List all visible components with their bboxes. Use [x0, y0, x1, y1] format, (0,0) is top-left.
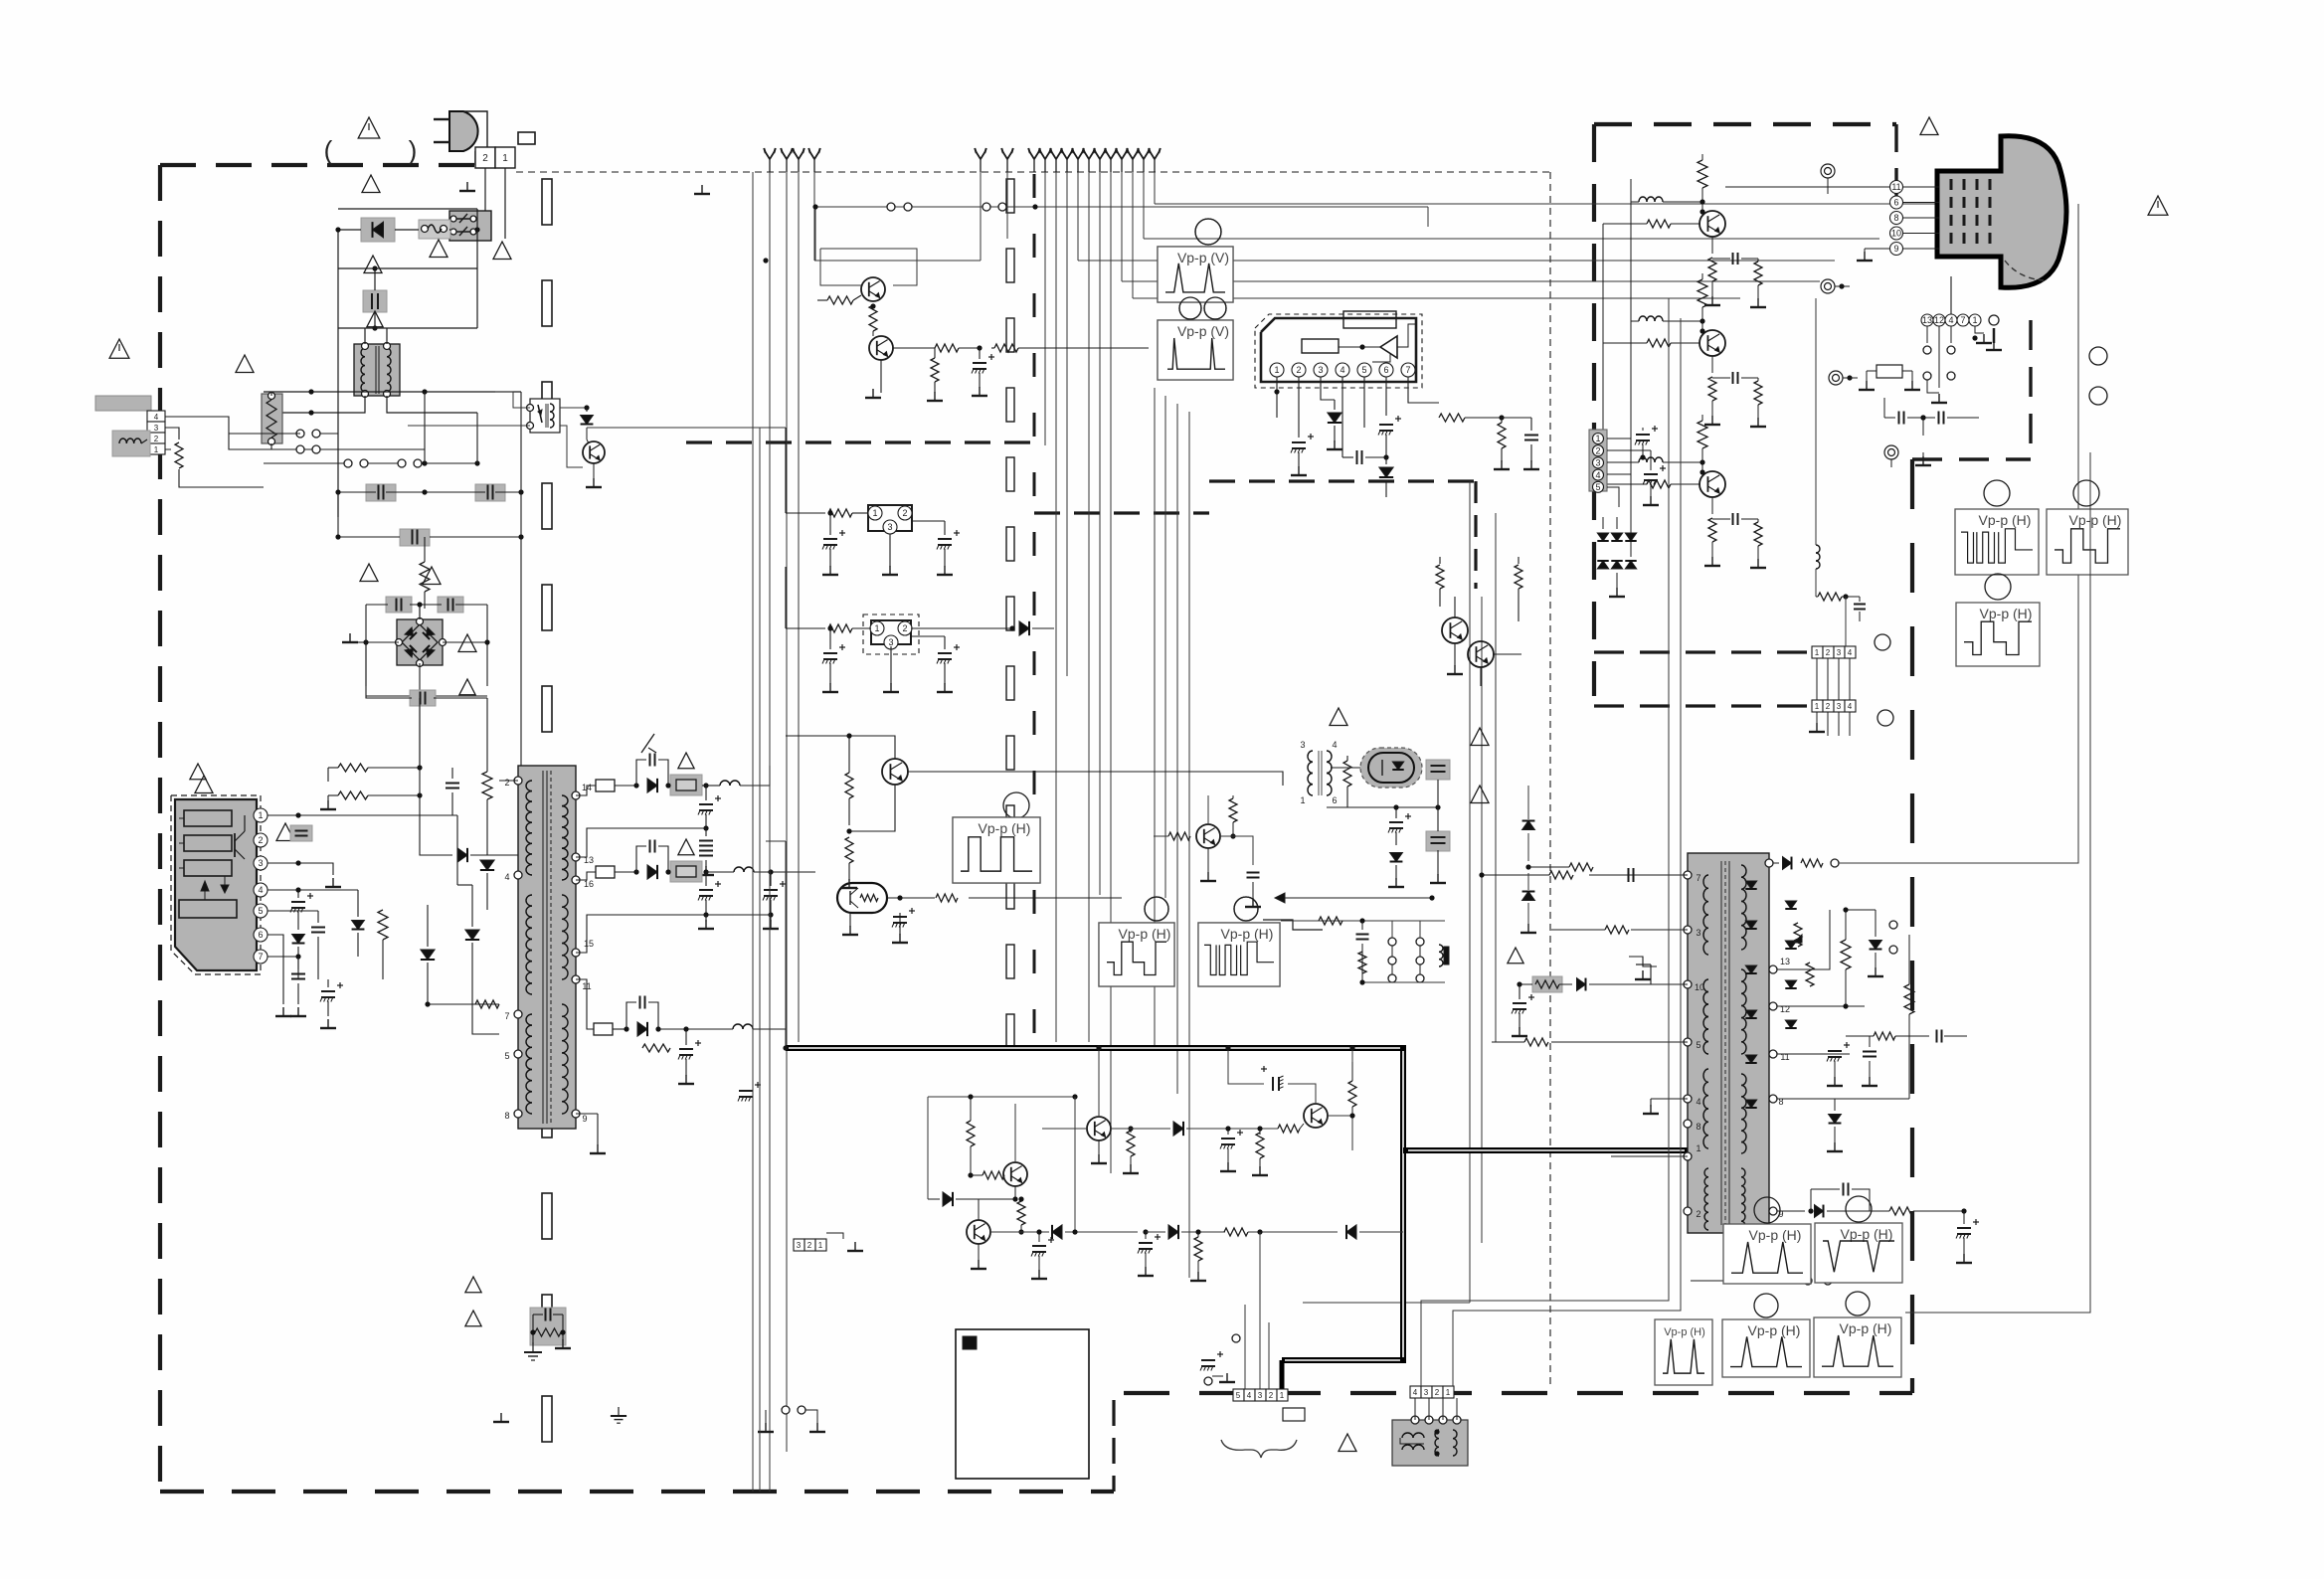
wire v427	[424, 392, 426, 463]
capacitor C26	[1502, 418, 1539, 469]
wire rd2	[1902, 366, 2118, 1233]
wire ic pin4	[268, 889, 298, 891]
gray pad JP1	[665, 775, 702, 795]
wire q5 top	[1349, 1045, 1354, 1062]
wire bus h 820	[457, 814, 518, 816]
wire d6	[428, 905, 499, 1004]
wire c7	[366, 642, 487, 698]
double circle J4	[1884, 445, 1898, 467]
svg-text:2: 2	[902, 508, 907, 518]
ic IC501 body	[1688, 853, 1769, 1233]
capacitor C14	[636, 754, 668, 787]
svg-text:15: 15	[584, 939, 594, 949]
svg-text:5: 5	[504, 1051, 509, 1061]
wire q7 b2	[978, 1199, 980, 1220]
svg-text:Vp-p (V): Vp-p (V)	[1177, 323, 1229, 339]
wire d7	[472, 885, 499, 1034]
wire fl1	[270, 392, 272, 449]
transformer T901 coil right1	[562, 795, 568, 880]
transformer T2 small	[1300, 740, 1337, 805]
wire row2 vert	[1074, 1097, 1076, 1232]
waveform box W1 overlay	[1158, 219, 1233, 302]
waveform box W5	[1198, 897, 1280, 986]
wire sec16	[576, 872, 596, 880]
wire row2	[990, 1231, 1049, 1233]
wire q7 base	[956, 1198, 1015, 1200]
video amp Q10 cap	[1712, 513, 1758, 525]
capacitor C2	[366, 484, 396, 501]
antenna input Z10	[1127, 148, 1139, 172]
wire pc2	[1331, 767, 1482, 769]
transistor Q2	[869, 336, 893, 360]
ground G1	[459, 182, 475, 191]
node q1	[763, 204, 1037, 263]
wire q13 collector	[1207, 795, 1209, 824]
transformer T901 coil left3	[526, 1014, 532, 1114]
coil L6	[1439, 945, 1449, 966]
wire bus drop	[1099, 172, 1101, 895]
wire reg1c	[882, 534, 898, 575]
resistor R14	[845, 733, 853, 825]
diode D4	[292, 935, 305, 980]
wire 770 out	[765, 813, 767, 841]
svg-text:1: 1	[1815, 702, 1820, 711]
wire sec14a	[615, 783, 639, 788]
wire rail 1184	[1176, 404, 1178, 1094]
svg-text:Vp-p (H): Vp-p (H)	[1979, 512, 2032, 528]
wire sec out bundle	[814, 813, 816, 1048]
label small rect	[0, 0, 1, 1]
regulator REG2 dashed	[863, 614, 919, 654]
wire ac loop	[338, 225, 505, 517]
node sec16	[703, 869, 708, 874]
wire bg2	[714, 1065, 925, 1067]
wire main b+	[785, 841, 787, 903]
svg-text:9: 9	[1893, 244, 1898, 254]
wire ic pin5	[268, 910, 318, 912]
ecap C34	[1388, 804, 1411, 845]
wire q7 emitter	[971, 1244, 986, 1269]
ecap C15	[698, 786, 721, 831]
resistor R12	[1408, 403, 1465, 422]
thick power line H3	[1403, 1147, 1688, 1153]
antenna input Z7	[1094, 148, 1106, 172]
capacitor C48	[1884, 412, 1979, 425]
fbt pin11	[1769, 1050, 1850, 1062]
wire r2	[424, 537, 426, 609]
wire crt gnd2	[1927, 380, 1947, 403]
link circles	[758, 1406, 825, 1432]
fbt pin9	[1769, 1207, 1784, 1219]
svg-text:4: 4	[504, 872, 509, 882]
svg-text:5: 5	[258, 906, 263, 916]
wire long2b	[759, 428, 761, 1491]
svg-text:2: 2	[258, 835, 263, 845]
ic IC901 blocks	[179, 810, 237, 918]
wire rd1	[2077, 298, 2079, 863]
wire ic301 p3	[1321, 377, 1335, 400]
svg-text:2: 2	[482, 153, 488, 164]
wire sec16a	[615, 869, 639, 874]
ecap C13	[320, 979, 343, 1016]
capacitor C50	[1854, 597, 1866, 621]
capacitor C4	[400, 529, 430, 546]
diode D1 block	[361, 218, 395, 242]
wire bg3	[0, 0, 1, 1]
diode D7	[465, 930, 479, 940]
wire ic301 p1	[1274, 377, 1279, 418]
diode D9	[647, 865, 657, 879]
antenna input Y3	[793, 148, 804, 172]
wire ic pin1	[268, 814, 457, 816]
svg-text:3: 3	[1837, 648, 1842, 657]
svg-text:4: 4	[1848, 648, 1853, 657]
wire focus2	[1889, 921, 1909, 969]
svg-text:4: 4	[1413, 1388, 1418, 1397]
wire jcol1	[1391, 921, 1393, 974]
svg-text:6: 6	[1332, 795, 1337, 805]
coil L2	[706, 766, 770, 786]
fbt body note	[0, 0, 1, 1]
diode D16	[1173, 1122, 1278, 1136]
svg-text:3: 3	[1837, 702, 1842, 711]
node icp1	[295, 812, 300, 817]
diode D6	[421, 950, 435, 960]
ecap C22	[972, 348, 994, 388]
coil L5	[1816, 298, 1820, 597]
warning triangle A10	[276, 823, 294, 841]
video amp Q8 resistor top	[1698, 154, 1707, 212]
ecap C35	[738, 1048, 761, 1102]
transistor Q6	[1003, 1162, 1027, 1186]
svg-text:4: 4	[1340, 365, 1344, 375]
wire t1 bottom left	[264, 396, 365, 413]
waveform box W3	[953, 792, 1040, 883]
svg-text:4: 4	[1332, 740, 1337, 750]
board outline bottom-middle riser (dashed)	[1112, 1400, 1115, 1491]
wire smps2	[328, 794, 420, 796]
resistor R10	[931, 348, 939, 393]
antenna input Z3	[1050, 148, 1062, 172]
transformer T901 coil left2	[526, 895, 532, 994]
wire distr 4	[1078, 260, 1835, 262]
wire crt pin1	[1972, 326, 1992, 343]
video amp Q9 emitter	[1704, 377, 1720, 425]
svg-text:10: 10	[1891, 229, 1901, 239]
wire ic501 p10	[1636, 965, 1688, 984]
wire loop3	[338, 268, 477, 328]
ecap C31	[892, 895, 915, 943]
wire ic301 p6	[1385, 377, 1387, 416]
crt board rail3	[1680, 318, 1682, 1293]
svg-text:1: 1	[818, 1241, 823, 1250]
ic IC501 coil r1	[1741, 865, 1746, 950]
capacitor C32 pad	[1426, 760, 1450, 780]
ecap C27	[822, 513, 845, 575]
wire rd3	[1905, 452, 2090, 1313]
connector CN3	[794, 1239, 826, 1251]
node q3	[846, 828, 851, 833]
wire q6 collector	[1014, 1104, 1016, 1162]
svg-text:Vp-p (H): Vp-p (H)	[1980, 606, 2033, 621]
crt bottom pins	[1921, 314, 1981, 326]
svg-text:7: 7	[258, 952, 263, 962]
capacitor C7	[410, 690, 436, 706]
wire t1 top	[338, 328, 387, 346]
node t1b	[308, 410, 313, 415]
capacitor C9	[290, 825, 312, 841]
warning triangle A20	[1920, 117, 1938, 135]
wire distr 3	[1007, 238, 1144, 240]
link circle mid	[1232, 1334, 1282, 1360]
ground G2	[342, 633, 366, 642]
snubber res	[533, 1315, 563, 1336]
svg-text:1: 1	[502, 153, 508, 164]
capacitor C44	[1862, 1036, 1877, 1086]
wire yk8	[1256, 1315, 1258, 1389]
node sec14	[703, 783, 708, 788]
svg-text:10: 10	[1695, 982, 1704, 992]
wire ic501 p7 in2	[1479, 872, 1549, 877]
wire right drop	[1983, 1286, 1985, 1288]
regulator REG1	[868, 505, 912, 534]
capacitor C24	[1342, 450, 1386, 464]
antenna input Y4	[808, 148, 820, 172]
gnd crt	[1857, 249, 1889, 261]
antenna input Z6	[1083, 148, 1095, 172]
wire long3	[785, 428, 787, 513]
diode D3	[457, 848, 467, 862]
node smps	[417, 765, 422, 797]
svg-text:6: 6	[258, 930, 263, 940]
open circles row2	[344, 459, 422, 467]
wire pc1	[887, 894, 1034, 902]
video amp Q8 coil	[1631, 197, 1705, 205]
wire zener res	[1528, 863, 1631, 930]
wire row1	[1111, 1128, 1170, 1130]
svg-text:1: 1	[1972, 315, 1977, 325]
transistor Q3	[882, 759, 908, 785]
ic IC301 body	[1261, 318, 1416, 382]
svg-text:1: 1	[258, 810, 263, 820]
wire jrow1	[1281, 917, 1445, 925]
ground G8	[865, 387, 987, 401]
interconnect dashed vertical thin	[1549, 172, 1551, 1387]
svg-text:Vp-p (H): Vp-p (H)	[2069, 512, 2122, 528]
wire cn7 feed2	[1259, 1232, 1261, 1389]
wire drop 986	[980, 172, 982, 261]
resistor R22	[1017, 1196, 1025, 1234]
resistor R6	[378, 910, 388, 940]
wire bus drop	[1154, 172, 1156, 204]
wire crt bottom	[1939, 276, 1963, 314]
board outline bottom (dashed)	[160, 1490, 1114, 1493]
board outline left (dashed)	[160, 163, 489, 167]
node r3	[422, 460, 479, 465]
capacitor C46	[1811, 1183, 1870, 1212]
ic IC301 opamp	[1339, 324, 1416, 362]
wire d6b	[428, 815, 457, 905]
wire relay out	[560, 405, 590, 410]
diode D19	[1168, 1225, 1225, 1239]
warning triangle A11	[465, 1277, 481, 1326]
capacitor C5	[386, 597, 412, 613]
crt board outline top (dashed)	[1594, 122, 1896, 126]
label box	[518, 132, 535, 144]
ic IC501 pins left	[1684, 871, 1704, 1219]
wire r1	[1973, 1280, 1975, 1282]
svg-text:9: 9	[582, 1114, 587, 1124]
waveform box W8	[1956, 574, 2040, 666]
warning triangle A1	[358, 117, 380, 138]
connector CN7	[1233, 1389, 1288, 1401]
svg-text:1: 1	[1446, 1388, 1451, 1397]
resistor R29	[1889, 1207, 1967, 1215]
waveform box W6	[1955, 480, 2039, 575]
ic IC501 coil l1	[1703, 875, 1708, 955]
warning triangle A8	[459, 679, 475, 695]
svg-text:3: 3	[258, 858, 263, 868]
wire jrow2	[1359, 979, 1445, 984]
bus dashed heavy horizontal	[686, 440, 1034, 443]
wire q1c	[815, 295, 861, 328]
warning triangle A22	[678, 753, 694, 769]
wire right drop	[1973, 1280, 1975, 1282]
capacitor C53	[1356, 921, 1369, 982]
ic IC501 coil r3	[1741, 1074, 1746, 1230]
wire long2	[752, 172, 754, 1491]
antenna input Z9	[1116, 148, 1128, 172]
wire row1 top	[1096, 1045, 1101, 1116]
wire under bridge	[366, 686, 487, 696]
svg-text:3: 3	[1258, 1391, 1263, 1400]
coil L4	[696, 1024, 786, 1048]
wire q1 row	[815, 207, 1428, 227]
waveform box W5 overlay	[1198, 897, 1280, 986]
wire relay out2	[560, 426, 583, 467]
switch S1	[449, 211, 491, 241]
ecap C51	[1635, 426, 1658, 460]
fuse F5	[594, 1023, 613, 1035]
wire sec11	[576, 979, 594, 1029]
circle right2	[1877, 710, 1893, 726]
wire ic301 p7	[1408, 377, 1439, 403]
svg-text:2: 2	[1269, 1391, 1274, 1400]
regulator REG2	[870, 620, 912, 649]
wire q3b	[849, 805, 895, 831]
video amp Q9 coil	[1631, 316, 1705, 324]
crt CRT1	[1937, 136, 2066, 288]
antenna input Z11	[1138, 148, 1150, 172]
wire d5	[357, 890, 359, 957]
wire q4 col	[0, 0, 1, 1]
node icp4	[295, 887, 300, 892]
video amp Q9 r2	[1750, 378, 1766, 427]
resistor R1	[175, 442, 183, 468]
wire yk3	[1453, 1293, 1681, 1386]
svg-text:1: 1	[872, 508, 877, 518]
wire sec14b	[702, 785, 706, 787]
diode D11	[637, 1022, 661, 1036]
wire drop 774	[769, 172, 771, 1491]
diode D12	[1327, 400, 1342, 449]
wire ic pin6	[268, 935, 283, 1004]
wire q1b	[814, 207, 816, 261]
wire crt pins	[1903, 187, 1939, 249]
wire bus drop	[1066, 172, 1068, 676]
wire q5 collector	[1288, 1084, 1316, 1104]
step sym 2	[1629, 957, 1657, 966]
ic IC901 body	[175, 799, 257, 970]
antenna input Y2	[781, 148, 793, 172]
ecap C40	[1138, 1229, 1161, 1276]
wire distr 8	[1133, 297, 1740, 299]
node c1a	[372, 265, 377, 330]
warning triangle A15	[236, 355, 254, 373]
svg-text:4: 4	[154, 413, 159, 422]
wire c33	[1430, 850, 1446, 883]
video amp Q9 wires	[1603, 307, 1712, 373]
wire cap v	[338, 230, 375, 290]
node icp3	[295, 860, 300, 865]
node brb	[417, 639, 489, 698]
small rect label	[1283, 1408, 1305, 1421]
transformer T901 pins right	[572, 783, 594, 1124]
wire v480	[476, 413, 478, 463]
link circles 2	[1691, 1255, 1964, 1285]
wire q2c	[880, 360, 882, 393]
wire rail 1478	[1303, 481, 1470, 1303]
svg-text:11: 11	[1891, 182, 1900, 192]
ic IC501 diodes	[1745, 881, 1756, 1108]
svg-text:3: 3	[1424, 1388, 1429, 1397]
transistor Q4	[1087, 1117, 1111, 1140]
wire drop 803	[798, 172, 800, 1042]
wire ic501 p4	[1651, 1098, 1688, 1100]
wire down1	[420, 795, 452, 855]
svg-text:1: 1	[1696, 1143, 1700, 1153]
coil L3	[706, 867, 815, 875]
wire t901 left	[452, 814, 457, 816]
svg-text:3: 3	[1300, 740, 1305, 750]
wire distr 5	[814, 260, 981, 262]
wire plug down	[485, 168, 505, 239]
snubber cap	[533, 1309, 563, 1321]
transistor Q10	[1442, 617, 1468, 643]
svg-text:3: 3	[154, 424, 159, 433]
wire t1 bottom right	[387, 396, 477, 413]
bus dashed heavy horizontal 2	[1034, 511, 1209, 514]
svg-text:Vp-p (H): Vp-p (H)	[1840, 1320, 1892, 1336]
trimmer RV2	[1806, 963, 1814, 986]
capacitor C11	[311, 911, 325, 979]
svg-text:Vp-p (H): Vp-p (H)	[1841, 1226, 1893, 1242]
node br	[363, 602, 422, 644]
wire relay in2	[408, 425, 530, 427]
wire row3	[264, 462, 477, 464]
svg-text:1: 1	[1815, 648, 1820, 657]
resistor R23	[1190, 1229, 1206, 1281]
svg-text:4: 4	[1247, 1391, 1252, 1400]
video amp Q9 cap	[1712, 372, 1758, 384]
wire q3	[849, 736, 895, 805]
svg-text:4: 4	[1696, 1097, 1700, 1107]
fuse F6	[1859, 365, 1920, 390]
waveform box W11	[1655, 1319, 1712, 1385]
antenna Y6	[1001, 148, 1013, 172]
diode D17	[928, 1097, 953, 1206]
connector CN2	[147, 411, 165, 454]
